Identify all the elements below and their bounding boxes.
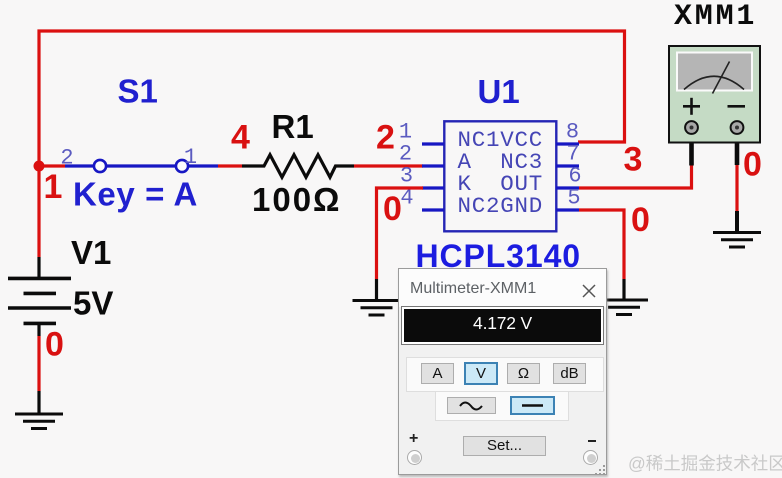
dialog reading display: [401, 306, 604, 345]
U1 pin stubs left: [422, 144, 444, 210]
wire net0 XMM1 minus red: [735, 165, 738, 211]
wire black V1 plus: [37, 257, 40, 278]
battery V1 plates: [8, 278, 71, 323]
U1 internal pin labels: [458, 127, 544, 219]
svg-text:0: 0: [743, 146, 762, 184]
XMM1 plus sign: [683, 98, 700, 115]
wire net1 loop from node up across top down to U1 pin8: [39, 31, 625, 166]
XMM1 meter needle: [713, 62, 730, 94]
svg-text:3: 3: [624, 141, 643, 179]
svg-text:R1: R1: [272, 108, 314, 145]
ground under pin5: [600, 300, 648, 315]
svg-text:5V: 5V: [73, 285, 113, 322]
button AC: [447, 397, 496, 414]
dialog wave group: [435, 391, 569, 421]
XMM1 meter scale arc: [684, 76, 744, 89]
svg-text:0: 0: [45, 326, 64, 364]
dialog terminal minus: [583, 450, 598, 465]
svg-text:1: 1: [184, 145, 197, 170]
switch S1 terminal circle right: [176, 160, 188, 172]
wire net2 R1 to U1 pin A: [354, 164, 423, 167]
probe lead black XMM1 plus: [689, 133, 694, 166]
XMM1 terminal minus: [731, 121, 744, 134]
wire black V1 minus: [37, 323, 40, 336]
switch S1 terminal circle left: [94, 160, 106, 172]
resistor R1: [242, 155, 354, 177]
ground under U1: [353, 301, 401, 316]
node junction dot net1: [34, 161, 45, 172]
switch S1 bar: [65, 164, 218, 167]
U1 pin numbers 1-4: [399, 120, 414, 211]
S1 terminal numbers: [60, 145, 197, 171]
dialog resize grip: [595, 465, 607, 477]
svg-text:S1: S1: [118, 73, 158, 110]
U1 pin stubs right: [556, 144, 579, 210]
wire net0 U1 pin5 GND to ground: [579, 210, 624, 279]
svg-text:2: 2: [60, 146, 73, 171]
wire net1 stub to S1: [39, 164, 65, 167]
wire black to ground pin3: [375, 279, 378, 301]
svg-text:Key = A: Key = A: [73, 176, 198, 213]
multimeter dialog window: [398, 268, 607, 475]
wire black XMM1 minus to ground: [735, 211, 739, 233]
dialog plus label: [409, 430, 418, 448]
svg-text:U1: U1: [478, 73, 520, 110]
ground under V1: [15, 414, 63, 429]
svg-text:100Ω: 100Ω: [252, 181, 342, 218]
dialog terminal plus: [407, 450, 422, 465]
button dB: [553, 363, 586, 384]
optocoupler U1 box: [444, 121, 556, 231]
dialog close button: [581, 283, 601, 303]
U1 pin numbers 5-8: [566, 120, 582, 211]
button ohm: [507, 363, 540, 384]
wire net1 V1 plus: [37, 166, 40, 257]
wire black to ground pin5: [622, 279, 625, 300]
svg-text:XMM1: XMM1: [674, 0, 757, 34]
button V selected: [464, 362, 498, 385]
ground under XMM1: [713, 233, 761, 248]
button DC selected: [510, 396, 555, 415]
probe lead black XMM1 minus: [735, 133, 740, 165]
svg-text:0: 0: [383, 190, 402, 228]
dialog mode group: [406, 357, 604, 392]
XMM1 display window: [677, 53, 752, 91]
dialog title bar: [399, 269, 606, 307]
svg-text:@稀土掘金技术社区: @稀土掘金技术社区: [628, 454, 782, 474]
button A: [421, 363, 454, 384]
svg-text:0: 0: [631, 201, 650, 239]
svg-text:1: 1: [44, 168, 63, 206]
button Set: [463, 436, 546, 456]
XMM1 terminal plus: [685, 121, 698, 134]
wire net0 U1 pin K to ground: [377, 188, 424, 279]
svg-text:4: 4: [231, 119, 250, 157]
XMM1 minus sign: [728, 105, 746, 108]
svg-text:V1: V1: [71, 234, 111, 271]
dialog minus label: [588, 440, 597, 442]
wire black V1 to ground: [37, 391, 40, 414]
svg-text:NC2GND: NC2GND: [458, 193, 544, 219]
multimeter XMM1 icon body: [669, 46, 760, 143]
wire net0 V1 minus red: [37, 336, 40, 391]
wire net3 U1 pin6 OUT to XMM1 plus: [579, 165, 692, 188]
svg-text:2: 2: [376, 119, 395, 157]
wire net4 S1 to R1: [218, 164, 242, 167]
svg-text:5: 5: [567, 186, 580, 211]
